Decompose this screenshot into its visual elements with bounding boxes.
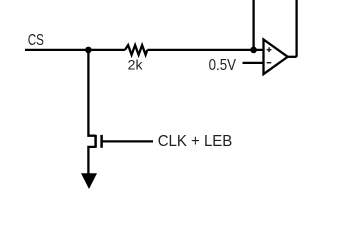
transistor Q1 channel bar xyxy=(94,135,97,148)
op-amp U1 comparator triangle xyxy=(264,40,288,75)
arrow current direction down xyxy=(81,173,97,189)
wire resistor to comparator + input xyxy=(147,49,263,51)
wire vertical from output to top edge xyxy=(295,0,297,57)
wire vertical from node B to top edge xyxy=(252,0,254,50)
op-amp minus pin mark xyxy=(267,62,272,64)
transistor Q1 gate bar xyxy=(100,135,103,148)
wire CS input horizontal xyxy=(25,49,125,51)
resistor value label 2k xyxy=(128,58,143,73)
resistor 2k zigzag xyxy=(125,45,147,55)
svg-text:CLK + LEB: CLK + LEB xyxy=(158,133,233,150)
svg-text:CS: CS xyxy=(28,32,44,49)
wire source vertical to arrow xyxy=(88,147,95,175)
wire op-amp output xyxy=(288,56,297,58)
junction node B (+ input) xyxy=(250,47,257,54)
label 0.5V xyxy=(209,57,237,74)
junction node A (CS / drain) xyxy=(85,47,92,54)
op-amp plus pin mark xyxy=(267,47,272,52)
wire drain vertical from node A to transistor xyxy=(88,50,95,136)
svg-text:2k: 2k xyxy=(128,58,143,73)
label CLK + LEB xyxy=(158,133,233,150)
wire 0.5V to inverting input xyxy=(243,62,264,64)
node CS label xyxy=(28,32,44,49)
svg-text:0.5V: 0.5V xyxy=(209,57,237,74)
wire gate to CLK + LEB xyxy=(103,140,153,142)
